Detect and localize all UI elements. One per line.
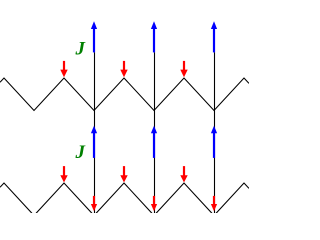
spin down arrow red row3 b xyxy=(151,196,157,211)
svg-text:J: J xyxy=(75,142,86,163)
spin up arrow blue row2 a xyxy=(91,126,97,158)
spin down arrow red row3 c xyxy=(211,196,217,211)
svg-text:J: J xyxy=(75,39,86,60)
spin down arrow red row2 c xyxy=(180,166,187,182)
wire vertical bond c xyxy=(214,52,216,215)
spin down arrow red row2 b xyxy=(120,166,127,182)
spin up arrow blue row2 c xyxy=(211,126,217,158)
spin down arrow red row1 a xyxy=(60,61,67,77)
wire zigzag chain 1 xyxy=(0,78,249,111)
spin up arrow blue row1 c xyxy=(211,21,217,52)
spin up arrow blue row2 b xyxy=(151,126,157,158)
wire vertical bond b xyxy=(154,52,156,215)
spin down arrow red row2 a xyxy=(60,166,67,182)
spin down arrow red row1 b xyxy=(120,61,127,77)
wire vertical bond a xyxy=(94,52,96,215)
spin down arrow red row3 a xyxy=(91,196,97,211)
spin up arrow blue row1 a xyxy=(91,21,97,52)
spin up arrow blue row1 b xyxy=(151,21,157,52)
spin down arrow red row1 c xyxy=(180,61,187,77)
wire zigzag chain 2 xyxy=(0,183,249,216)
